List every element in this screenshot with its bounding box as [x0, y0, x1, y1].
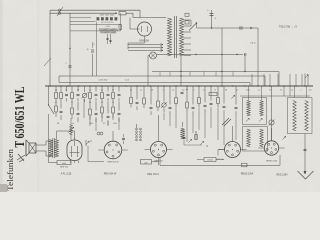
IF transformer 2 box	[243, 127, 268, 152]
wire drop x96	[95, 86, 97, 92]
wire mains top	[50, 9, 140, 11]
wire secondary right vertical	[190, 20, 192, 26]
junction detector	[195, 131, 196, 132]
mains switch S1	[58, 9, 60, 11]
bias box 2	[141, 160, 152, 165]
rail R2 corner down	[264, 76, 266, 86]
wire drop2 x90	[89, 102, 91, 109]
wire right verticals to bus	[283, 86, 285, 96]
wire right edge	[304, 134, 306, 175]
resistor r2x90	[89, 109, 92, 115]
trimmer detector	[231, 95, 234, 98]
wire x222 vertical	[221, 28, 223, 86]
resistor r2x56	[55, 106, 58, 112]
wire x70 vertical	[69, 48, 71, 86]
wire drop2 x102	[101, 102, 103, 107]
wire dropm x211	[210, 86, 212, 101]
resistor r1x113	[112, 93, 115, 99]
wire ticks rail to bus right	[251, 74, 253, 86]
transformer tap switch	[189, 23, 197, 31]
resistor r1x56	[55, 93, 58, 99]
electrolytic capacitor C-ht	[211, 10, 213, 28]
wire speaker bottom	[36, 150, 46, 152]
resistor mx131	[130, 98, 133, 104]
IF transformer 3 box	[288, 98, 313, 134]
bus junction dots	[49, 85, 51, 87]
detector resistor	[195, 135, 197, 140]
wire drop2 x119	[118, 102, 120, 111]
capacitor r1x96	[95, 93, 98, 95]
capacitor r2x78	[77, 112, 80, 114]
wire dropm x187	[186, 86, 188, 102]
choke squiggle b	[110, 34, 112, 44]
wire dropm x158	[157, 86, 159, 101]
junction pilot rail	[195, 54, 196, 55]
output transformer secondary	[55, 140, 59, 158]
resistor mx187	[186, 102, 189, 108]
wire mains left vertical	[49, 10, 51, 86]
capacitor r1x108	[107, 93, 110, 95]
wire tube A top	[112, 131, 114, 141]
IF1 coil a	[247, 101, 250, 117]
resistor mx158	[157, 101, 160, 107]
transformer core	[173, 16, 175, 58]
capacitor r2x119	[118, 112, 121, 114]
transformer primary winding	[168, 18, 172, 56]
wire drop x84.5	[84, 86, 86, 92]
detector trimmer b	[200, 141, 203, 144]
wire dropm x170	[169, 86, 171, 105]
IF1 trimmer a	[246, 118, 249, 121]
wire HT line	[197, 27, 259, 29]
wire rectifier left	[130, 28, 138, 30]
wire long drops left	[83, 99, 85, 118]
output tube leads	[70, 161, 72, 164]
wire long drops middle	[163, 113, 165, 121]
resistor mx176	[175, 98, 178, 104]
wire HT corner down	[257, 28, 259, 86]
rail R2 left corner	[58, 76, 60, 83]
wire drop x113	[112, 86, 114, 92]
capacitor left of tube B	[123, 134, 125, 137]
wire dropm x205	[204, 86, 206, 103]
wire pilot lamp left	[148, 55, 150, 57]
potentiometer r1x84.5	[82, 93, 86, 97]
wire rectifier bottom	[144, 36, 146, 43]
wire x271.5 vertical	[271, 86, 273, 140]
resistor r1x72	[71, 93, 74, 99]
resistor r2x102	[101, 107, 104, 113]
rail R1	[152, 71, 279, 73]
capacitor mx211	[210, 102, 213, 104]
fuse vertical	[119, 25, 121, 30]
rectifier tube RGN354	[138, 22, 152, 36]
wire dropm x193	[192, 86, 194, 105]
arrow down	[304, 171, 306, 174]
switch detector	[222, 118, 229, 125]
tube C RENS1204	[225, 142, 241, 158]
wire drop x56	[55, 86, 57, 92]
resistor r1x90	[89, 93, 92, 99]
bottom rail	[160, 164, 280, 166]
transformer secondary taps	[184, 19, 192, 21]
wire pilot lamp right rail	[157, 54, 244, 56]
resistor r1x102	[101, 93, 104, 99]
wire bottom rail risers	[159, 158, 161, 165]
capacitor mx205	[204, 104, 207, 106]
capacitor r1x66.5	[65, 93, 68, 95]
rail R3	[59, 82, 250, 84]
wire dropm x199	[198, 86, 200, 97]
transformer secondary winding	[180, 18, 184, 56]
wire osc coil	[136, 124, 138, 128]
wire box3	[197, 159, 204, 161]
capacitor dx236	[235, 106, 238, 108]
wire rail end down	[244, 56, 246, 72]
paper texture overlay	[0, 0, 320, 192]
mains switch S1b	[58, 12, 60, 14]
wire drop2 x61	[60, 102, 62, 109]
tube D RENS1234	[264, 141, 278, 155]
capacitor on x70	[69, 65, 72, 67]
rail R3 corner down	[249, 83, 251, 87]
capacitor r2x61	[60, 110, 63, 112]
wire x70 vertical top	[69, 13, 71, 48]
series resistor in bottom rail	[242, 163, 248, 167]
capacitor mx137	[136, 101, 139, 103]
capacitor in heater rail	[244, 53, 246, 56]
wire drop x78	[77, 86, 79, 92]
output transformer core	[52, 138, 54, 158]
wire x88 down	[87, 146, 89, 162]
tube B REN904	[151, 142, 167, 158]
heater arrows to transformer	[128, 44, 163, 46]
wire fuse to transformer	[126, 12, 133, 14]
trimmer above tube D	[282, 136, 285, 139]
heater choke horizontal	[99, 28, 102, 30]
series capacitor on HT	[239, 26, 241, 29]
wire drop2 x78	[77, 102, 79, 111]
wire drop x72	[71, 86, 73, 92]
junction x70 top	[69, 48, 70, 49]
fuse Si	[119, 12, 126, 15]
junction mains	[115, 12, 117, 14]
resistor horizontal 214	[209, 93, 217, 96]
IF transformer 1 box	[243, 98, 267, 125]
wire tube C top	[232, 126, 234, 142]
rail R2	[59, 75, 265, 77]
ground V symbol	[298, 171, 314, 179]
wire dropd x224	[223, 86, 225, 104]
grid cap connector	[97, 132, 100, 135]
wire IF drops	[248, 86, 250, 101]
wire tube B top	[158, 115, 160, 142]
IF1 coil b	[260, 101, 263, 117]
IF2 coil b	[260, 129, 263, 147]
capacitor dx224	[223, 105, 226, 107]
capacitor mx193	[192, 106, 195, 108]
wire dropd x218	[217, 86, 219, 97]
wire bias left	[49, 162, 58, 164]
wire IF3 drops	[294, 86, 296, 98]
wire dropd x236	[235, 86, 237, 105]
wire drop x108	[107, 86, 109, 92]
wire speaker top	[36, 144, 46, 146]
wire tube D top	[271, 128, 273, 141]
capacitor r2x108	[107, 115, 110, 117]
output transformer primary	[49, 140, 53, 158]
capacitor mx151	[150, 106, 153, 108]
transformer tap boxes	[185, 13, 189, 16]
wire dropm x176	[175, 86, 177, 97]
capacitor r2x96	[95, 112, 98, 114]
wire mains second	[50, 12, 116, 14]
oscillator coil hatch	[181, 128, 185, 139]
wire dropm x144	[143, 86, 145, 98]
wire drop2 x72	[71, 102, 73, 108]
wire dropm x164	[163, 86, 165, 102]
grid resistor output	[85, 140, 87, 146]
potentiometer mx164	[162, 103, 166, 107]
wire box2	[152, 161, 159, 163]
main bus	[45, 85, 313, 87]
wire drop x102	[101, 86, 103, 92]
IF3 coil a	[293, 101, 296, 132]
resistor dx218	[217, 98, 220, 104]
wire ticks rail R1 crossings	[159, 72, 161, 77]
switch wave change	[48, 86, 50, 105]
wire switch to HT	[196, 23, 198, 28]
antenna series capacitor	[92, 54, 94, 76]
handwritten mark	[17, 154, 25, 162]
pilot lamp	[150, 52, 157, 59]
wire output transformer top	[56, 131, 58, 140]
wire drop2 x56	[55, 102, 57, 106]
switch lower left diagonal	[44, 58, 51, 66]
wire detector links	[184, 144, 202, 146]
trimmer right top	[305, 75, 308, 78]
resistor r1x61	[60, 93, 63, 99]
oscillator coil dots A	[136, 128, 138, 130]
wire drop x66.5	[66, 86, 68, 92]
heater choke leads	[70, 30, 99, 32]
wire selector feeders	[70, 17, 91, 19]
junction HT	[211, 27, 212, 28]
resistor r2x113	[112, 107, 115, 113]
rail coils right	[240, 95, 310, 97]
resistor r2x72	[71, 108, 74, 114]
tube A REN904	[104, 141, 122, 159]
loudspeaker	[29, 143, 36, 153]
output tube RES964	[67, 140, 82, 161]
IF1 trimmer b	[259, 118, 262, 121]
wire dropm x131	[130, 86, 132, 97]
wire transformer bottom drop	[180, 56, 182, 86]
wire drop x90	[89, 86, 91, 92]
wire dropm x151	[150, 86, 152, 105]
resistor mx144	[143, 98, 146, 104]
wire drop2 x113	[112, 102, 114, 107]
wire right edge upper	[304, 74, 306, 87]
wire drop2 x108	[107, 102, 109, 114]
IF3 coil b	[305, 101, 308, 132]
paper background	[0, 0, 320, 192]
capacitor mx170	[169, 106, 172, 108]
bias box 3	[204, 158, 216, 162]
IF2 coil a	[247, 129, 250, 147]
wire drop x119	[118, 86, 120, 92]
resistor mx199	[198, 98, 201, 104]
detector capacitor a	[183, 130, 185, 136]
hum potentiometer	[70, 125, 73, 136]
variable capacitor mid	[269, 120, 274, 125]
choke squiggle a	[107, 34, 109, 44]
oscillator coil dots B	[140, 128, 142, 130]
selector line down	[96, 22, 98, 77]
wire drop x61	[60, 86, 62, 92]
arrow HT	[250, 27, 253, 29]
wire drop2 x96	[95, 102, 97, 111]
capacitor r1x78	[77, 93, 80, 95]
wire dropm x137	[136, 86, 138, 100]
wire tube C to rail	[218, 149, 225, 151]
bias box	[57, 161, 71, 165]
wire top to transformer	[139, 10, 141, 17]
capacitor r1x119	[118, 93, 121, 95]
capacitor right edge	[304, 148, 307, 150]
wire to output tube anode	[74, 131, 76, 140]
detector trimmer a	[188, 139, 191, 142]
cluster caps near 185	[181, 91, 184, 93]
rail R1 corner down	[278, 72, 280, 87]
